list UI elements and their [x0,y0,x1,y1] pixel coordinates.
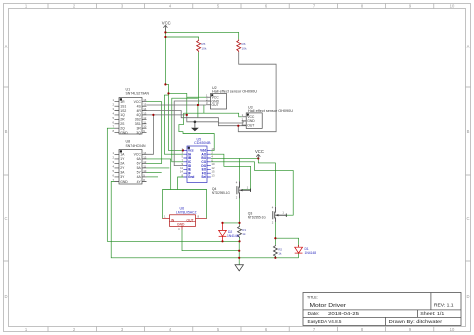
svg-text:1A: 1A [120,153,125,157]
svg-text:1k: 1k [278,252,282,256]
transistor Q4 NTD2955-1G [212,181,251,200]
VCC symbol mid [255,149,264,158]
svg-text:B: B [467,129,470,134]
svg-text:13: 13 [211,174,215,178]
svg-text:Sel: Sel [201,175,206,179]
svg-text:Gnd: Gnd [188,175,194,179]
svg-text:2Y: 2Y [120,166,125,170]
diode D2 1N4148 [219,223,239,241]
svg-text:2Q: 2Q [120,127,125,131]
svg-text:LM78L05ACZ: LM78L05ACZ [176,210,197,214]
svg-text:4Y: 4Y [137,180,142,184]
wire U8 VCC from node [147,115,154,154]
svg-text:1Q: 1Q [120,113,125,117]
svg-text:GND: GND [177,223,185,227]
svg-text:6A: 6A [137,157,142,161]
wire bundle B6 U8 5A elbow [147,167,170,169]
svg-text:GND: GND [120,131,128,135]
wire U1 p13 to gnd node [147,115,239,126]
svg-text:A: A [5,44,8,49]
wire R1 bottom to rail a [239,238,241,242]
regulator U6 LM78L05ACZ [163,206,207,231]
wire VCC stem down-left bundle [165,28,183,150]
svg-text:11: 11 [143,120,146,124]
svg-text:NTD2955-1G: NTD2955-1G [248,216,266,220]
wire U2 OUT drop [203,105,205,113]
wire VCC branch to U2 VCC [169,93,207,115]
wire U2 lower run to U3 VCC [184,113,242,117]
wire Q3 source down to R2/D1 [275,222,298,247]
wire bundle B1 U1 p16 to U8 6Y [147,102,162,164]
ground GND1 [191,122,199,131]
svg-text:OUT: OUT [212,103,219,107]
svg-text:D: D [4,294,7,299]
transistor Q3 NTD2955-1G [248,206,287,225]
wire U1 p15 to U2 OUT [147,104,207,106]
wire bundle B4 to U5 pin [172,98,198,162]
svg-text:3Y: 3Y [120,175,125,179]
wire riser U5 Gnd to staple [178,177,184,190]
svg-text:D: D [466,294,469,299]
svg-text:VCC: VCC [162,20,171,25]
svg-text:1Y: 1Y [120,157,125,161]
svg-text:2A: 2A [120,162,125,166]
resistor R2 [273,245,282,258]
svg-text:TITLE:: TITLE: [307,295,318,299]
svg-text:5Y: 5Y [137,171,142,175]
wire U5 out to Q3 gate [211,162,293,215]
svg-text:10k: 10k [201,46,206,50]
svg-text:10: 10 [143,169,147,173]
svg-text:10: 10 [450,4,455,9]
svg-text:13: 13 [143,111,147,115]
svg-text:11: 11 [143,164,146,168]
svg-text:1R: 1R [120,100,125,104]
resistor R6 [237,39,247,52]
wire VCC rail to R6 top [165,32,238,39]
svg-text:3R: 3R [136,127,141,131]
svg-text:14: 14 [143,107,147,111]
wire R5 bottom to node [197,52,200,118]
dark gray wires [147,52,277,166]
svg-text:4R: 4R [136,109,141,113]
wire Q4 source down to D2/R1 top [223,198,240,225]
svg-text:C: C [466,216,469,221]
svg-text:6Y: 6Y [137,162,142,166]
svg-text:4A: 4A [137,175,142,179]
svg-text:A: A [467,44,470,49]
wire U8 5Y stub run [147,171,162,173]
svg-text:VCC: VCC [255,149,264,154]
svg-text:2R: 2R [120,118,125,122]
svg-text:Motor Driver: Motor Driver [310,303,347,309]
svg-text:Drawn By: ditchwater: Drawn By: ditchwater [389,319,443,324]
svg-text:3Q: 3Q [136,131,141,135]
IC U1 SN74LS279AN [112,88,149,136]
wire VCC rail to R5 top [165,37,198,39]
resistor R1 [238,225,247,238]
IC U8 SN74HC04N [112,140,146,185]
wire R2 bottom to rail [274,256,276,258]
wire U1 2Q left vertical to bottom rail [107,128,239,241]
svg-text:Hall effect sensor OH090U: Hall effect sensor OH090U [248,109,293,113]
wire U6 staple [163,190,207,219]
wire U1 p14 to U3 GND [147,111,247,124]
wire staircase U5 out to Q4 gate [211,154,251,190]
svg-text:REV: 1.1: REV: 1.1 [434,302,454,307]
ground GND2 [235,265,243,271]
wire U5 out to VCC node to Q3 drain [211,158,276,206]
hall effect sensor U3 [242,105,294,128]
wire R6 bottom loop to U3 OUT [238,52,276,132]
svg-text:12: 12 [143,116,147,120]
svg-text:VCC: VCC [134,100,142,104]
svg-text:Date:: Date: [308,311,320,316]
svg-text:3A: 3A [120,171,125,175]
svg-text:SN74LS279AN: SN74LS279AN [126,92,150,96]
svg-text:NTD2955-1G: NTD2955-1G [212,191,230,195]
IC U5 CD4504B [180,138,215,183]
black node dot at gnd1 [194,121,197,124]
svg-text:OUT: OUT [187,218,194,222]
svg-text:2018-04-25: 2018-04-25 [328,311,360,316]
resistor R5 [197,39,207,52]
svg-text:2S: 2S [120,122,125,126]
svg-text:5A: 5A [137,166,142,170]
svg-text:SN74HC04N: SN74HC04N [126,144,146,148]
svg-text:14: 14 [143,151,147,155]
svg-text:16: 16 [143,98,147,102]
wire U3 OUT to U5 Vcc [179,113,214,150]
hall effect sensor U2 [206,86,257,109]
svg-text:1S2: 1S2 [120,109,126,113]
svg-text:10: 10 [143,125,147,129]
svg-text:3S2: 3S2 [135,118,141,122]
wire D1 bottom to rail [298,254,300,258]
svg-text:Sheet: 1/1: Sheet: 1/1 [420,311,445,316]
wire U6 gnd stem to rail b [182,230,239,251]
svg-text:OUT: OUT [247,123,254,127]
wire U8 4A elbow run [147,176,159,178]
svg-text:10: 10 [450,327,455,332]
svg-text:1N4148: 1N4148 [227,234,239,238]
wire U8 GND left vertical to bottom rail [111,182,298,258]
junction dots [152,31,276,259]
svg-text:13: 13 [143,155,147,159]
svg-text:EasyEDA V4.8.5: EasyEDA V4.8.5 [308,319,343,324]
svg-text:GND: GND [120,180,128,184]
svg-text:1k: 1k [242,232,246,236]
wire U8 6A to staple riser [147,159,171,190]
svg-text:12: 12 [143,160,147,164]
svg-text:3S1: 3S1 [135,122,141,126]
svg-text:10k: 10k [242,46,247,50]
wire bundle B3 to U5 pin [164,95,183,154]
svg-text:4Q: 4Q [136,113,141,117]
svg-text:Hall effect sensor OH090U: Hall effect sensor OH090U [212,90,257,94]
title block [303,293,461,326]
wire U2 GND run to U5 pin [174,101,206,166]
svg-text:1N4148: 1N4148 [305,251,317,255]
svg-text:VCC: VCC [134,153,142,157]
VCC symbol top [162,20,171,31]
svg-text:B: B [5,129,8,134]
svg-text:CD4504B: CD4504B [194,141,211,145]
diode D1 1N4148 [295,245,317,255]
svg-text:C: C [4,216,7,221]
wire ground stem GND2 [238,241,240,264]
